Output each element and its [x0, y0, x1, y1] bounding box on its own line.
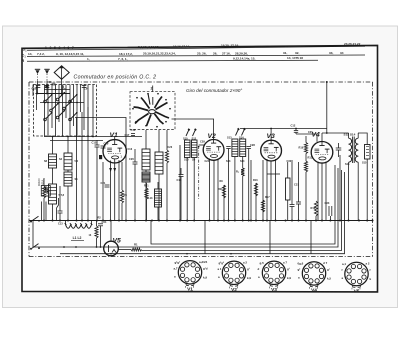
- resistor R5: [120, 190, 123, 203]
- svg-text:14, 17/B 18: 14, 17/B 18: [287, 56, 303, 60]
- wire socket drop a: [204, 221, 206, 254]
- svg-text:S15 S14: S15 S14: [344, 133, 356, 137]
- resistor R12: [241, 168, 244, 176]
- wire harness drop 3: [44, 85, 46, 137]
- capacitor C28: [246, 146, 251, 148]
- row S1 line: [27, 46, 365, 50]
- tube V1 grid cap lead: [114, 137, 116, 140]
- tube V5 top lead: [110, 221, 112, 242]
- IF1 leads: [186, 158, 188, 221]
- svg-text:k,9: k,9: [247, 276, 251, 280]
- IF2 trimmer arrow a: [236, 129, 239, 136]
- svg-text:g²g³: g²g³: [219, 261, 224, 265]
- capacitor C20: [133, 161, 138, 163]
- wire L1 right: [91, 221, 93, 225]
- wire harness drop 13: [80, 85, 82, 113]
- svg-text:k,5: k,5: [327, 276, 331, 280]
- tube V1 pin arrows: [109, 168, 112, 172]
- switch section 1 contacts: [44, 100, 47, 103]
- wire harness drop 2: [36, 85, 38, 111]
- svg-text:k,9: k,9: [203, 275, 207, 279]
- svg-text:a 7: a 7: [283, 260, 287, 264]
- resistor R13: [304, 161, 307, 172]
- svg-text:R21: R21: [144, 185, 149, 188]
- wire harness drop 1: [32, 85, 34, 97]
- svg-text:20,19,16,21,22,23,4,24,: 20,19,16,21,22,23,4,24,: [143, 52, 176, 56]
- wire harness drop 16: [92, 85, 94, 137]
- svg-text:f: f: [269, 285, 270, 289]
- inductor L1 L2: [66, 225, 71, 229]
- loudspeaker: [365, 145, 371, 160]
- svg-text:V2: V2: [231, 287, 237, 293]
- svg-text:d 7: d 7: [323, 261, 328, 265]
- wire drop 8: [255, 183, 257, 221]
- svg-text:R5: R5: [124, 193, 128, 197]
- wire drop 7: [250, 160, 252, 221]
- wire V1 grid feed: [75, 118, 126, 161]
- wire harness drop 11: [73, 85, 75, 127]
- svg-text:a,1: a,1: [342, 262, 346, 266]
- capacitor C14: [179, 174, 184, 176]
- wire switch to coils: [44, 136, 142, 138]
- wire drop 9: [262, 160, 264, 221]
- svg-text:f: f: [277, 285, 278, 289]
- tube V4 grid cap: [296, 134, 317, 142]
- switch S16: [30, 221, 32, 223]
- resistor R17: [261, 200, 264, 212]
- svg-text:a 1: a 1: [218, 267, 222, 271]
- svg-text:S14: S14: [240, 160, 245, 163]
- svg-text:S15: S15: [362, 162, 367, 165]
- output transformer core: [352, 137, 354, 164]
- svg-text:1352467: 1352467: [45, 46, 76, 50]
- tube socket V4: [302, 262, 325, 285]
- svg-text:27 16,: 27 16,: [222, 51, 231, 55]
- svg-text:5,7,8: 5,7,8: [59, 194, 65, 197]
- wire return dots: [63, 246, 65, 248]
- svg-text:g¹: g¹: [327, 267, 330, 271]
- svg-text:V5: V5: [113, 238, 122, 245]
- svg-text:28,29,30,: 28,29,30,: [235, 51, 248, 55]
- coil S7: [64, 172, 72, 186]
- tube V1 pin leads: [110, 161, 112, 221]
- IF1 trimmer arrow a: [186, 130, 189, 137]
- svg-text:a,7: a,7: [174, 266, 178, 270]
- capacitor C30: [290, 204, 295, 206]
- resistor R16 box: [286, 178, 291, 200]
- wire harness drop 6: [55, 85, 57, 137]
- svg-text:10,16,17,19,: 10,16,17,19,: [173, 44, 190, 48]
- coil L10 leads: [158, 130, 160, 152]
- output transformer primary: [349, 138, 352, 144]
- resistor R16: [254, 183, 257, 196]
- resistor R20: [165, 150, 168, 163]
- switch section 2 stem: [152, 86, 154, 93]
- wire return 4: [60, 172, 345, 254]
- wire drop 10: [339, 155, 341, 221]
- svg-text:25, 26,: 25, 26,: [197, 51, 207, 55]
- IF2 leads: [234, 157, 236, 221]
- resistor R3: [42, 186, 45, 198]
- svg-text:R19: R19: [299, 146, 304, 150]
- svg-text:0g,6: 0g,6: [298, 261, 304, 265]
- tube V3 pin leads: [266, 159, 268, 221]
- svg-text:Giro del conmutador 2×90°: Giro del conmutador 2×90°: [186, 88, 242, 93]
- mains selector box: [41, 186, 50, 197]
- tube V3: [261, 140, 282, 161]
- chassis boundary bottom: [29, 256, 373, 258]
- svg-text:R17: R17: [265, 196, 270, 199]
- wire harness drop 15: [87, 85, 89, 137]
- wire L1 left: [65, 221, 67, 225]
- wire socket drop c: [269, 221, 271, 254]
- capacitor C12: [295, 129, 297, 131]
- tube socket V3: [262, 261, 285, 284]
- wire drop 3: [87, 107, 89, 221]
- svg-text:18,1 17,2,: 18,1 17,2,: [119, 52, 133, 56]
- tube socket V2: [222, 261, 245, 284]
- svg-text:AZUL: AZUL: [41, 179, 45, 186]
- svg-text:f: f: [342, 268, 343, 272]
- svg-text:7,4 2,: 7,4 2,: [37, 52, 45, 56]
- capacitor C21: [105, 184, 110, 186]
- tube V3 grid lead: [270, 129, 272, 141]
- coil S5: [49, 154, 57, 168]
- row C1 line: [27, 55, 365, 56]
- wire return 3: [142, 170, 342, 251]
- resistor R19: [304, 143, 307, 154]
- row R line: [27, 60, 318, 61]
- svg-text:31,: 31,: [283, 51, 287, 55]
- resistor R18: [314, 201, 317, 216]
- wire B+ drop: [326, 82, 328, 133]
- svg-text:33,: 33,: [329, 51, 333, 55]
- resistor R11: [222, 185, 225, 198]
- svg-text:C12: C12: [291, 124, 296, 128]
- junction blob V1: [99, 155, 102, 159]
- wire harness drop 12: [76, 85, 78, 137]
- svg-text:g¹d: g¹d: [203, 266, 208, 270]
- capacitor C33 electrolytic: [328, 206, 330, 216]
- capacitor C15: [95, 144, 100, 146]
- tube socket V5: [345, 262, 368, 285]
- svg-text:V2: V2: [208, 133, 217, 140]
- resistor R2: [95, 226, 98, 238]
- svg-text:23,26,21,22: 23,26,21,22: [344, 42, 361, 46]
- svg-text:9,12,14,14a, 15,: 9,12,14,14a, 15,: [233, 56, 256, 60]
- bus wire: [29, 220, 373, 222]
- wire drop 4: [102, 162, 104, 221]
- coil L8 leads: [145, 130, 147, 149]
- svg-text:1,: 1,: [87, 57, 90, 61]
- wire IF bus: [240, 128, 327, 130]
- coil L13: [155, 189, 162, 207]
- svg-text:V3: V3: [271, 287, 277, 293]
- wire drop 2: [81, 112, 83, 221]
- capacitor C14: [58, 210, 63, 212]
- svg-text:g¹: g¹: [247, 267, 250, 271]
- coil bank leads: [52, 136, 54, 154]
- coil S6: [64, 153, 72, 170]
- capacitor C9: [45, 85, 50, 87]
- mains selector leads: [41, 202, 43, 221]
- wire coil tie 2: [50, 140, 103, 142]
- svg-text:8,9,10, 9,11,13,: 8,9,10, 9,11,13,: [138, 45, 159, 49]
- svg-text:C35: C35: [308, 131, 313, 134]
- svg-text:Conmutador en posición O.C. 2: Conmutador en posición O.C. 2: [74, 75, 157, 81]
- aerial 1: [35, 68, 40, 70]
- chassis boundary top: [29, 81, 373, 83]
- wire return 2: [33, 168, 338, 247]
- capacitor C27: [226, 146, 231, 148]
- svg-text:C: C: [49, 80, 51, 84]
- wire socket drop d: [310, 221, 312, 254]
- svg-text:a 2: a 2: [366, 262, 370, 266]
- svg-text:C33: C33: [325, 201, 330, 205]
- svg-text:C23: C23: [168, 146, 173, 149]
- svg-text:k,9: k,9: [287, 276, 291, 280]
- IF2 trimmer arrow b: [242, 129, 245, 136]
- capacitor C10: [36, 85, 41, 87]
- wire harness drop 9: [65, 85, 67, 119]
- svg-text:d: d: [258, 267, 260, 271]
- wire harness drop 8: [62, 85, 64, 137]
- svg-text:7, 6, 1,: 7, 6, 1,: [118, 57, 128, 61]
- coil L8: [142, 149, 150, 170]
- svg-text:C13: C13: [58, 223, 63, 226]
- coil S8: [49, 184, 57, 204]
- svg-text:C29: C29: [200, 140, 205, 144]
- resistor R1: [131, 248, 142, 251]
- wire harness tie 2: [40, 102, 84, 104]
- wire harness drop 14: [83, 85, 85, 131]
- IF2 winding a: [232, 139, 238, 157]
- bus junction dots: [43, 220, 45, 222]
- svg-text:19,20, 17,19,: 19,20, 17,19,: [221, 44, 239, 48]
- svg-text:f: f: [193, 285, 194, 289]
- svg-text:C28: C28: [250, 143, 255, 147]
- loudspeaker leads: [366, 140, 368, 145]
- svg-text:V4: V4: [311, 288, 317, 294]
- wire harness drop 7: [58, 85, 60, 123]
- output transformer secondary: [355, 138, 358, 144]
- wire harness drop 5: [51, 85, 53, 129]
- svg-text:C34: C34: [102, 220, 107, 224]
- svg-text:C10: C10: [32, 87, 37, 91]
- svg-text:S13: S13: [226, 160, 231, 163]
- capacitor C34: [98, 223, 103, 225]
- svg-text:L: L: [63, 85, 66, 90]
- svg-text:V5: V5: [354, 288, 360, 294]
- svg-text:C19: C19: [104, 142, 109, 146]
- aerial 2: [44, 68, 49, 70]
- tube V4: [311, 142, 333, 164]
- svg-text:R16: R16: [253, 179, 258, 182]
- svg-text:C15: C15: [92, 141, 97, 145]
- svg-text:g,5: g,5: [260, 261, 265, 265]
- svg-text:S10: S10: [183, 136, 188, 140]
- IF2 winding b: [240, 139, 246, 157]
- svg-text:C24: C24: [205, 160, 210, 163]
- svg-text:S10: S10: [184, 158, 189, 162]
- chassis boundary left: [28, 82, 30, 257]
- frame aerial diamond: [54, 66, 69, 80]
- capacitor C31: [296, 201, 301, 203]
- resistor R21: [145, 188, 148, 199]
- svg-text:R1: R1: [134, 243, 138, 247]
- svg-text:g¹: g¹: [287, 267, 290, 271]
- svg-text:14,: 14,: [28, 52, 32, 56]
- svg-text:32,: 32,: [295, 51, 299, 55]
- wire harness drop 10: [69, 85, 71, 137]
- tube V5: [104, 241, 119, 256]
- svg-text:S16: S16: [345, 163, 350, 166]
- svg-text:g²: g²: [298, 267, 301, 271]
- wire harness tie 3: [44, 89, 70, 91]
- wire V3 cathode jog: [267, 173, 280, 175]
- svg-text:f: f: [317, 286, 318, 290]
- svg-text:C30: C30: [287, 160, 292, 163]
- switch section 2 box: [130, 92, 175, 130]
- svg-text:S14: S14: [239, 135, 244, 139]
- IF1 winding b: [192, 140, 198, 158]
- svg-text:26,: 26,: [213, 51, 217, 55]
- svg-text:f: f: [352, 287, 353, 291]
- IF1 trimmer arrow b: [193, 130, 196, 137]
- svg-text:S13: S13: [227, 135, 232, 139]
- wire drop 1: [76, 118, 78, 221]
- border frame: [22, 45, 378, 292]
- svg-text:V1: V1: [110, 132, 119, 139]
- wire V4 plate: [322, 132, 349, 134]
- svg-text:L1 L2: L1 L2: [73, 236, 82, 240]
- svg-text:V4: V4: [312, 132, 321, 139]
- tube socket V1: [178, 261, 201, 284]
- wire drop 5: [179, 145, 181, 221]
- wire drop 6: [223, 185, 225, 221]
- tube V4 pin leads: [317, 162, 319, 221]
- svg-text:C16: C16: [128, 148, 133, 151]
- wire harness tie: [36, 93, 71, 95]
- wire socket drop b: [243, 221, 245, 241]
- svg-text:9, 10, 12,13,5,15 11,: 9, 10, 12,13,5,15 11,: [56, 52, 84, 56]
- svg-text:f: f: [229, 285, 230, 289]
- switch section 2 pole: [149, 110, 156, 114]
- svg-text:C18: C18: [131, 128, 136, 132]
- svg-text:R18: R18: [311, 206, 316, 210]
- switch section 2 arms: [156, 103, 168, 110]
- svg-text:a,d/24: a,d/24: [199, 260, 208, 264]
- IF1 winding a: [185, 140, 191, 158]
- svg-text:f: f: [309, 286, 310, 290]
- capacitor C19: [101, 145, 106, 147]
- wire harness drop 4: [47, 85, 49, 137]
- coil L10: [155, 152, 163, 174]
- svg-text:C20: C20: [129, 157, 134, 161]
- svg-text:2: 2: [151, 87, 153, 91]
- svg-text:S12: S12: [192, 136, 197, 140]
- svg-text:R11: R11: [218, 187, 223, 191]
- IF1 shield line: [198, 146, 200, 200]
- svg-text:f: f: [185, 285, 186, 289]
- tube V1: [103, 140, 126, 163]
- svg-text:g²g³: g²g³: [175, 260, 180, 264]
- svg-text:L13: L13: [148, 196, 153, 200]
- tube V2 pin leads: [209, 159, 211, 221]
- svg-text:C21: C21: [101, 181, 106, 185]
- svg-text:34: 34: [340, 51, 344, 55]
- wire return 1: [151, 165, 335, 244]
- capacitor C32: [336, 147, 342, 149]
- output transformer leads: [348, 162, 350, 220]
- switch S17: [30, 248, 32, 250]
- coil L9: [142, 172, 150, 182]
- svg-text:f: f: [237, 285, 238, 289]
- svg-text:R: R: [22, 59, 25, 63]
- svg-text:V1: V1: [187, 287, 193, 293]
- chassis boundary right: [372, 82, 374, 257]
- switch section 1 box: [34, 85, 97, 137]
- svg-text:a 2: a 2: [243, 260, 247, 264]
- wire bus right end: [372, 220, 374, 222]
- tube V2 grid lead: [172, 119, 214, 140]
- svg-text:f: f: [360, 287, 361, 291]
- svg-text:f: f: [370, 268, 371, 272]
- tube V2: [203, 140, 224, 161]
- svg-text:ROJO: ROJO: [37, 179, 41, 186]
